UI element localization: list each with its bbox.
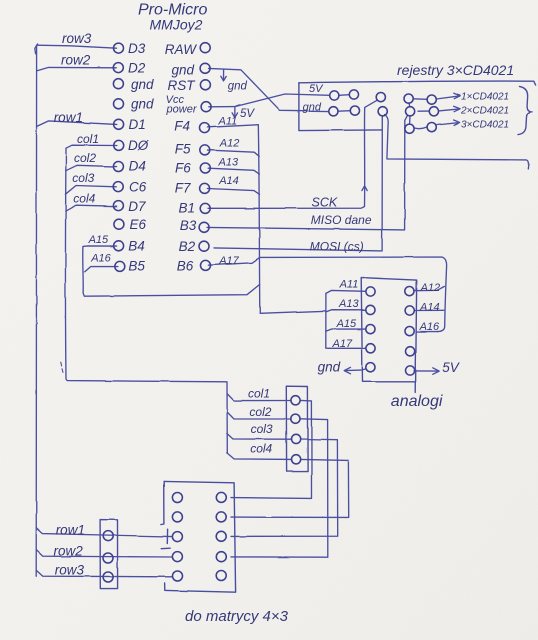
svg-text:D4: D4 — [129, 159, 146, 174]
svg-text:A13: A13 — [338, 298, 359, 310]
svg-text:F6: F6 — [175, 161, 191, 176]
svg-text:A12: A12 — [219, 138, 240, 150]
svg-text:col1: col1 — [77, 132, 99, 146]
svg-text:gnd: gnd — [131, 97, 154, 112]
svg-text:A14: A14 — [218, 175, 239, 187]
svg-text:MOSI (cs): MOSI (cs) — [310, 240, 364, 254]
svg-text:col3: col3 — [72, 171, 94, 185]
svg-text:MMJoy2: MMJoy2 — [150, 17, 203, 33]
svg-text:col4: col4 — [250, 442, 272, 456]
svg-text:col2: col2 — [74, 151, 96, 165]
svg-text:F5: F5 — [175, 142, 191, 157]
svg-text:A16: A16 — [90, 253, 111, 265]
svg-text:col1: col1 — [248, 387, 270, 401]
svg-text:row2: row2 — [54, 544, 84, 559]
svg-text:1×CD4021: 1×CD4021 — [461, 92, 509, 103]
svg-text:B5: B5 — [128, 259, 145, 274]
svg-text:analogi: analogi — [391, 393, 443, 410]
svg-text:A14: A14 — [419, 302, 440, 314]
svg-text:A15: A15 — [88, 234, 109, 246]
svg-text:DØ: DØ — [128, 138, 150, 153]
svg-text:A15: A15 — [336, 318, 357, 330]
svg-text:col2: col2 — [249, 405, 271, 419]
svg-text:MISO dane: MISO dane — [311, 213, 372, 227]
svg-text:row3: row3 — [55, 563, 85, 578]
svg-text:5V: 5V — [442, 360, 461, 375]
svg-text:do matrycy 4×3: do matrycy 4×3 — [185, 608, 289, 625]
svg-text:B1: B1 — [178, 201, 195, 216]
svg-text:SCK: SCK — [312, 196, 338, 210]
svg-text:A12: A12 — [420, 282, 441, 294]
svg-text:rejestry 3×CD4021: rejestry 3×CD4021 — [397, 62, 514, 78]
svg-text:A11: A11 — [339, 279, 359, 291]
svg-text:2×CD4021: 2×CD4021 — [460, 105, 509, 116]
svg-text:C6: C6 — [129, 180, 147, 195]
svg-text:A16: A16 — [419, 321, 440, 333]
svg-text:B2: B2 — [179, 239, 196, 254]
svg-text:A17: A17 — [218, 255, 239, 267]
svg-text:col4: col4 — [73, 192, 95, 206]
svg-text:D7: D7 — [128, 199, 146, 214]
svg-text:gnd: gnd — [228, 81, 248, 93]
svg-text:D1: D1 — [129, 117, 146, 132]
svg-text:F4: F4 — [174, 119, 190, 134]
svg-text:col3: col3 — [251, 422, 273, 436]
svg-text:E6: E6 — [130, 217, 147, 232]
svg-text:D3: D3 — [128, 41, 146, 56]
svg-text:A11: A11 — [218, 116, 238, 128]
svg-text:5V: 5V — [240, 108, 255, 120]
svg-text:gnd: gnd — [318, 360, 341, 375]
svg-text:B3: B3 — [180, 218, 197, 233]
svg-text:RST: RST — [168, 78, 197, 93]
svg-text:row3: row3 — [62, 31, 92, 46]
svg-text:power: power — [166, 104, 198, 116]
svg-text:B6: B6 — [177, 259, 194, 274]
svg-text:F7: F7 — [175, 181, 191, 196]
svg-text:gnd: gnd — [131, 77, 154, 92]
svg-text:row1: row1 — [56, 523, 85, 538]
svg-text:3×CD4021: 3×CD4021 — [461, 119, 509, 130]
svg-text:row2: row2 — [61, 53, 91, 68]
svg-text:RAW: RAW — [165, 42, 198, 57]
svg-text:gnd: gnd — [303, 102, 322, 114]
svg-text:5V: 5V — [309, 83, 324, 95]
svg-text:B4: B4 — [128, 239, 145, 254]
svg-text:gnd: gnd — [171, 63, 194, 78]
svg-text:A13: A13 — [218, 157, 239, 169]
svg-text:row1: row1 — [54, 110, 83, 125]
svg-text:A17: A17 — [332, 338, 353, 350]
svg-text:D2: D2 — [128, 61, 146, 76]
